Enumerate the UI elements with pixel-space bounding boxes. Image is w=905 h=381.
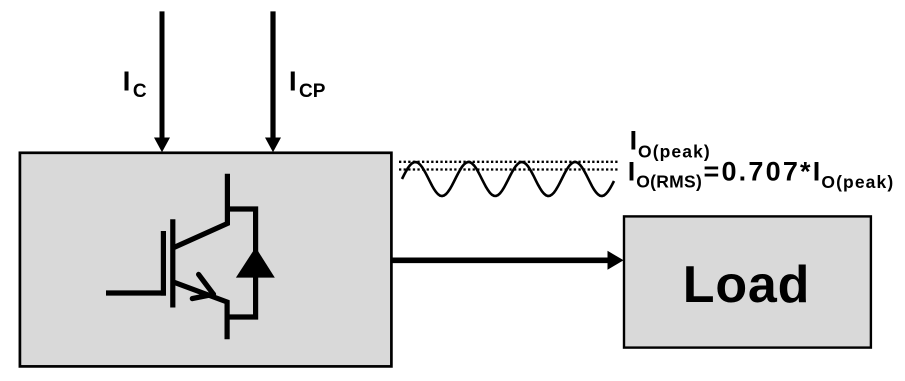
svg-text:O(peak): O(peak) <box>821 172 894 192</box>
svg-text:CP: CP <box>299 81 326 102</box>
svg-text:I: I <box>630 125 638 155</box>
svg-text:C: C <box>133 81 147 102</box>
svg-text:O(RMS): O(RMS) <box>636 172 702 192</box>
svg-text:Load: Load <box>683 256 810 314</box>
svg-text:I: I <box>123 65 131 96</box>
svg-text:O(peak): O(peak) <box>638 141 711 161</box>
svg-text:I: I <box>628 156 636 186</box>
svg-text:I: I <box>289 65 297 96</box>
svg-text:=0.707*I: =0.707*I <box>704 156 823 186</box>
